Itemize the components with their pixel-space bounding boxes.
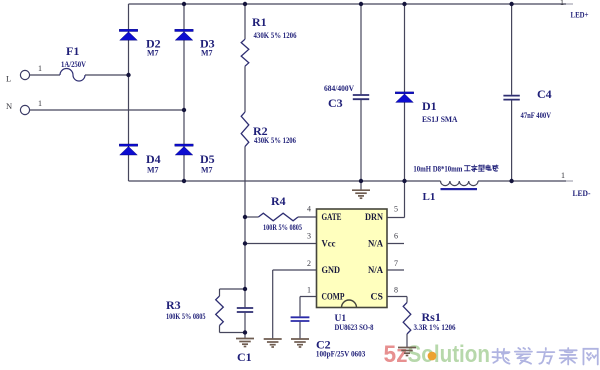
svg-text:684/400V: 684/400V (324, 84, 354, 93)
svg-text:1: 1 (561, 171, 565, 180)
svg-text:D1: D1 (422, 99, 437, 113)
svg-text:1: 1 (560, 0, 564, 7)
svg-text:430K 5% 1206: 430K 5% 1206 (254, 136, 296, 145)
svg-text:1A/250V: 1A/250V (61, 60, 86, 69)
svg-text:430K 5% 1206: 430K 5% 1206 (254, 31, 297, 40)
svg-text:C3: C3 (328, 96, 343, 110)
svg-text:M7: M7 (201, 166, 213, 175)
svg-text:R4: R4 (271, 194, 286, 208)
svg-text:3: 3 (307, 232, 311, 241)
svg-text:10mH D8*10mm: 10mH D8*10mm (413, 165, 462, 174)
svg-text:47nF 400V: 47nF 400V (521, 111, 552, 120)
svg-text:100R 5% 0805: 100R 5% 0805 (263, 223, 302, 232)
svg-text:LED+: LED+ (571, 11, 589, 20)
svg-text:DRN: DRN (365, 212, 383, 222)
svg-text:N: N (6, 101, 12, 111)
svg-text:F1: F1 (66, 44, 79, 58)
svg-text:C4: C4 (537, 87, 552, 101)
svg-text:ES1J SMA: ES1J SMA (422, 115, 458, 124)
svg-text:4: 4 (307, 205, 311, 214)
svg-text:DU8623 SO-8: DU8623 SO-8 (335, 323, 374, 332)
svg-text:M7: M7 (147, 166, 159, 175)
svg-text:L: L (6, 74, 11, 84)
svg-text:Solution: Solution (408, 341, 491, 368)
svg-text:1: 1 (38, 64, 42, 73)
svg-text:5z: 5z (384, 341, 408, 368)
svg-text:CS: CS (371, 292, 384, 302)
svg-text:GATE: GATE (322, 212, 342, 222)
svg-text:1: 1 (307, 286, 311, 295)
svg-text:R3: R3 (166, 298, 181, 312)
svg-text:LED-: LED- (573, 189, 591, 198)
svg-text:3.3R 1% 1206: 3.3R 1% 1206 (414, 323, 456, 332)
svg-text:1: 1 (38, 99, 42, 108)
svg-text:Vcc: Vcc (322, 239, 336, 249)
svg-text:N/A: N/A (368, 265, 383, 275)
svg-text:2: 2 (307, 259, 311, 268)
svg-text:R1: R1 (252, 15, 267, 29)
svg-text:L1: L1 (423, 191, 436, 203)
svg-text:5: 5 (394, 205, 398, 214)
svg-text:100pF/25V 0603: 100pF/25V 0603 (316, 350, 365, 359)
svg-text:8: 8 (394, 286, 398, 295)
svg-text:N/A: N/A (368, 239, 383, 249)
svg-text:D5: D5 (200, 152, 215, 166)
svg-text:D4: D4 (146, 152, 161, 166)
svg-text:7: 7 (394, 259, 398, 268)
svg-text:6: 6 (394, 232, 398, 241)
svg-text:M7: M7 (147, 49, 159, 58)
svg-text:Rs1: Rs1 (422, 310, 441, 324)
svg-text:M7: M7 (201, 49, 213, 58)
svg-text:C1: C1 (237, 350, 252, 364)
svg-text:COMP: COMP (322, 292, 345, 302)
svg-text:GND: GND (322, 265, 341, 275)
svg-text:100K 5% 0805: 100K 5% 0805 (166, 312, 206, 321)
